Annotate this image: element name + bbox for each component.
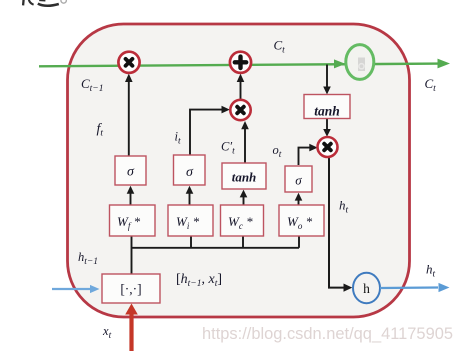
wire: branch from C line down to tanh U5 <box>326 65 328 91</box>
hidden state node h (blue ellipse) <box>353 273 380 303</box>
tanh box U3 (candidate) <box>222 163 266 189</box>
wire: tanh U5 down to multiply M3 <box>326 119 328 134</box>
sigma box U4 (output gate) <box>285 166 312 192</box>
tanh box U5 (top right) <box>304 95 350 119</box>
wire: cell state line C (green, left to right) <box>39 64 441 67</box>
wire: h_t output blue arrow <box>380 286 438 289</box>
wire arrowhead into state ellipse <box>334 59 346 68</box>
cell state ellipse (green) <box>346 45 374 80</box>
wire: sigma2 output i_t elbow to M2 <box>190 110 226 155</box>
wire: W_i up to sigma2 <box>189 189 191 205</box>
svg-text:σ: σ <box>186 165 194 180</box>
wire: M3 output h path down and right to h node <box>329 157 348 287</box>
wire: h_t-1 input blue arrow <box>52 288 94 290</box>
wire: W_o up to sigma3 <box>298 196 300 205</box>
multiply node M1 on C line <box>118 52 139 73</box>
sigma box U1 (forget gate) <box>115 156 146 185</box>
multiply node M2 <box>230 100 250 120</box>
svg-text:tanh: tanh <box>232 170 257 185</box>
wire: W_c up to tanh2 <box>243 193 245 205</box>
svg-text:σ: σ <box>295 173 302 188</box>
wire: tanh2 output C't up to M2 <box>244 125 246 163</box>
sigma box U2 (input gate) <box>174 155 206 185</box>
add node A1 on C line <box>230 52 251 73</box>
svg-text:h: h <box>363 281 370 296</box>
faint watermark glyph inside ellipse <box>358 58 365 72</box>
concat box [.,.] <box>102 274 160 303</box>
wire: sigma1 output f_t up to multiply M1 <box>128 77 130 156</box>
wire: concat bus from [.,.] up and across under W boxes <box>131 237 133 275</box>
LSTM cell rounded border <box>68 24 410 317</box>
svg-text:https://blog.csdn.net/qq_41175: https://blog.csdn.net/qq_41175905 <box>202 324 453 343</box>
multiply node M3 <box>318 137 338 157</box>
wire arrowhead C_t output right <box>438 59 451 69</box>
wire: sigma3 output o_t elbow to M3 <box>299 148 315 165</box>
svg-text:[·,·]: [·,·] <box>120 282 141 297</box>
wire: multiply M2 up to add A1 <box>240 77 242 100</box>
wire: W_f up to sigma1 <box>130 189 132 205</box>
svg-text:tanh: tanh <box>314 104 340 119</box>
wire: x_t input red arrow <box>129 310 133 351</box>
svg-text:σ: σ <box>127 165 135 180</box>
weight box W_f <box>110 205 156 236</box>
weight box W_i <box>168 205 213 236</box>
weight box W_o <box>279 205 324 236</box>
top clipped Chinese caption <box>23 0 66 6</box>
weight box W_c <box>221 205 264 236</box>
